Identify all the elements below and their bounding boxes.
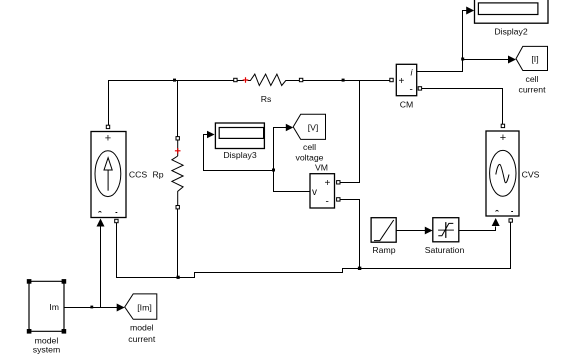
port square CM plus input (390, 78, 393, 81)
svg-text:CM: CM (400, 100, 414, 110)
saturation block (433, 218, 459, 242)
svg-text:model: model (130, 323, 154, 333)
svg-text:+: + (105, 133, 111, 145)
port square Rs right (299, 78, 302, 81)
wire: Rs right to CM plus (301, 80, 391, 82)
wire: Rp riser from top node (177, 80, 179, 137)
svg-text:Im: Im (49, 302, 59, 312)
port square CCS top (106, 125, 109, 128)
subsystem model system (27, 279, 66, 334)
arrowhead into [I] tag (508, 56, 516, 64)
wire: branch to cell current tag (463, 59, 509, 61)
svg-text:[Im]: [Im] (137, 303, 151, 313)
svg-text:current: current (128, 334, 156, 344)
port square CVS top (501, 124, 504, 127)
voltage source CVS (486, 131, 519, 216)
arrowhead up into CVS bottom-left (492, 218, 500, 226)
arrowhead into Display2 (466, 7, 474, 15)
port square VM plus output (337, 181, 340, 184)
svg-text:VM: VM (315, 163, 328, 173)
junction dot model system output (90, 306, 93, 309)
wire: top node CCS top riser and to Rs (109, 81, 236, 129)
goto tag [I] cell current (516, 46, 548, 70)
display block Display2 (475, 0, 549, 23)
port square CM minus wire end (418, 87, 421, 90)
port square Rp top (176, 137, 179, 140)
node junction dot (VM plus branch) (342, 79, 345, 82)
wire: Saturation to CVS control input (459, 227, 496, 231)
svg-text:voltage: voltage (295, 153, 323, 163)
wire: VM v input network to [V] tag (274, 128, 311, 192)
svg-text:Saturation: Saturation (425, 245, 465, 255)
wire: CM minus to CVS top (422, 89, 503, 126)
port square Rp bottom (176, 206, 179, 209)
wire: Ramp to Saturation (396, 230, 425, 232)
arrowhead into Display3 (207, 131, 215, 139)
resistor Rp (172, 138, 183, 206)
svg-text:+: + (325, 178, 331, 189)
current measurement CM (396, 64, 416, 95)
wire: CM i output up to Display2 (417, 11, 467, 72)
arrowhead up into CCS bottom-left (97, 219, 105, 227)
svg-text:[I]: [I] (531, 54, 538, 64)
svg-text:Rp: Rp (152, 170, 163, 180)
junction dot VM minus on bus (358, 267, 361, 270)
red polarity mark Rp (175, 148, 181, 154)
svg-text:-: - (410, 85, 413, 96)
wire: riser from model system wire to CCS control input (100, 225, 102, 308)
wire: model system output to [Im] tag (64, 307, 118, 309)
port square Rs left (234, 78, 237, 81)
port square VM minus output (337, 198, 340, 201)
svg-text:-: - (326, 197, 329, 208)
wire: VM plus branch riser (340, 80, 360, 183)
resistor Rs (237, 74, 299, 85)
wire: branch to Display3 (204, 135, 274, 171)
junction dot Rp bottom on bus (177, 276, 180, 279)
node junction dot top-left (Rp branch) (173, 79, 176, 82)
display block Display3 (215, 123, 264, 149)
svg-text:[V]: [V] (308, 123, 319, 133)
arrowhead into [V] tag (286, 124, 293, 132)
red polarity mark Rs (243, 77, 249, 83)
svg-text:v: v (312, 187, 317, 198)
node junction dot (cell current branch) (461, 58, 464, 61)
svg-text:Display3: Display3 (223, 150, 256, 160)
svg-text:CCS: CCS (129, 170, 148, 180)
wire: Rp bottom to bus (177, 207, 179, 278)
current source CCS (91, 132, 126, 218)
port square CCS bottom-right (115, 219, 118, 222)
goto tag [Im] model current (125, 294, 157, 319)
wire: bottom bus (117, 222, 511, 278)
port square CVS bottom-right (509, 219, 512, 222)
svg-text:cell: cell (303, 142, 316, 152)
svg-text:+: + (500, 132, 506, 144)
voltage measurement VM (310, 174, 335, 208)
arrowhead into [Im] tag (117, 304, 125, 312)
svg-text:current: current (518, 85, 546, 95)
arrowhead into Saturation (425, 227, 433, 235)
goto tag [V] cell voltage (293, 114, 325, 139)
svg-text:Display2: Display2 (494, 27, 527, 37)
ramp source block (371, 218, 396, 243)
junction dot Display3 branch (272, 169, 275, 172)
svg-text:cell: cell (525, 74, 538, 84)
svg-text:Rs: Rs (261, 94, 272, 104)
svg-text:system: system (33, 345, 61, 355)
wire: VM minus down to bottom bus (340, 200, 360, 268)
svg-text:CVS: CVS (522, 170, 540, 180)
svg-text:+: + (399, 76, 405, 87)
svg-text:Ramp: Ramp (372, 245, 395, 255)
